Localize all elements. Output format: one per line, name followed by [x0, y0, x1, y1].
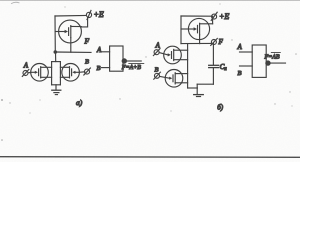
terminal A (left circuit) — [22, 69, 31, 76]
terminal A (right circuit) — [153, 49, 160, 56]
wire: drain up to supply — [212, 16, 214, 24]
ground (right circuit) — [194, 95, 204, 97]
transistor VT5 input A (right circuit) — [159, 46, 187, 64]
wire: top supply wire — [181, 15, 211, 17]
transistor VT2 input A (left circuit) — [31, 64, 52, 82]
wire: bottom wire right — [197, 83, 213, 85]
stray pen mark top-left — [12, 2, 20, 3]
wire: ground stub — [196, 88, 198, 94]
gate U2 input wire A — [240, 51, 253, 53]
gate U1 box — [110, 46, 123, 71]
wire: drain to +E — [81, 17, 87, 27]
wire: pair bottom bar — [52, 84, 61, 86]
ground (left circuit) — [52, 90, 61, 94]
transistor VT3 input B (left circuit, mirrored) — [60, 64, 79, 82]
transistor VT4 load (right circuit) — [181, 18, 213, 39]
terminal +E (left circuit) — [86, 10, 91, 19]
wire: output line F — [181, 42, 211, 44]
gate U2 box — [252, 45, 266, 77]
gate U2 inversion bubble — [265, 60, 270, 65]
bottom border line — [0, 156, 300, 159]
wire: source down to F node — [70, 38, 72, 53]
label Cn — [220, 63, 228, 72]
capacitor Cn — [209, 65, 219, 67]
wire: source down to F — [199, 35, 201, 44]
gate U1 output wire — [127, 60, 141, 62]
gate U1 inversion bubble — [122, 58, 127, 63]
capacitor Cn bottom lead — [212, 68, 214, 84]
gate U2 input wire B — [240, 65, 253, 67]
wire: left gate rail — [180, 16, 182, 44]
transistor VT6 input B (right circuit) — [160, 70, 188, 88]
wire: pair right rail — [59, 62, 61, 85]
node F junction dot — [54, 50, 58, 54]
wire: F node down to pair — [55, 52, 57, 62]
wire: bottom bar to ground — [55, 85, 57, 90]
terminal B (left circuit) — [79, 68, 90, 75]
faint scan specks — [1, 3, 297, 140]
capacitor Cn top lead — [212, 43, 214, 65]
gate U2 output wire — [271, 62, 286, 64]
gate U1 input wire A — [101, 51, 110, 53]
formula F = AB (overlined) — [264, 53, 281, 61]
transistor VT1 load (left circuit) — [55, 20, 81, 43]
wire: pair left rail — [51, 62, 53, 85]
wire: pair top bar — [52, 61, 61, 63]
formula F = A+B (overlined) — [121, 64, 144, 72]
wire: series rail — [187, 44, 189, 88]
wire: output line F — [55, 51, 91, 53]
terminal B (right circuit) — [154, 72, 161, 79]
wire: top supply wire — [55, 14, 86, 17]
wire: left gate rail — [54, 16, 56, 52]
terminal F (right circuit) — [211, 38, 218, 45]
wire: bottom wire left — [188, 87, 198, 89]
top border line — [0, 0, 300, 2]
terminal +E (right circuit) — [211, 12, 217, 20]
gate U1 input wire B — [102, 67, 110, 69]
